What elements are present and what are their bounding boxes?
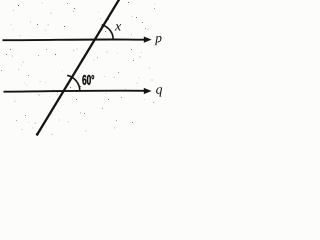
transversal end blob — [36, 133, 39, 136]
arrow q — [144, 88, 152, 94]
line p — [3, 38, 146, 41]
angle arc 60 — [67, 75, 80, 91]
arrow p — [144, 37, 152, 43]
line q — [4, 91, 146, 92]
transversal — [37, 0, 120, 136]
label p — [154, 36, 161, 45]
angle arc x — [102, 25, 113, 40]
label x — [115, 24, 121, 30]
label 60deg — [82, 75, 94, 85]
label q — [156, 87, 162, 96]
